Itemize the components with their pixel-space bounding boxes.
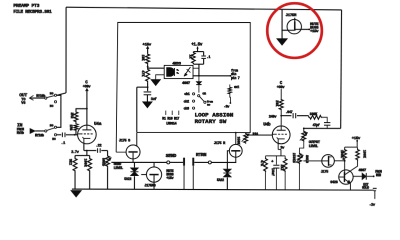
zener pair 5A22 rtrn bbox=[223, 162, 231, 189]
svg-text:J175MS: J175MS bbox=[144, 184, 156, 188]
wire box bottom stub bbox=[136, 87, 138, 132]
wire rtrn line bbox=[194, 161, 236, 163]
stub R10 bbox=[171, 111, 173, 115]
wire plate supply branch bbox=[76, 108, 88, 111]
resistor 20K plate bbox=[279, 89, 283, 126]
wire plate node bbox=[280, 115, 291, 117]
svg-text:20K: 20K bbox=[274, 100, 278, 107]
svg-text:RIN: RIN bbox=[376, 173, 381, 177]
svg-text:16uf: 16uf bbox=[271, 168, 275, 176]
wire ext to -3v bbox=[230, 94, 232, 104]
contact rotary wiper bbox=[198, 95, 200, 97]
wire network bottom bbox=[193, 64, 203, 76]
label 5A22 rtrn bbox=[217, 179, 224, 183]
svg-text:J175 S: J175 S bbox=[119, 140, 131, 144]
label 25Kb bbox=[292, 153, 296, 163]
label -3v bbox=[224, 106, 231, 110]
svg-text:4N33: 4N33 bbox=[172, 62, 181, 66]
optocoupler arrows bbox=[176, 69, 179, 74]
relay RY10b out common bbox=[45, 97, 47, 99]
arrow out to V8 bbox=[30, 95, 34, 100]
svg-text:no: no bbox=[207, 104, 211, 107]
label 1K bbox=[187, 54, 191, 59]
label C +30v right bbox=[277, 82, 286, 90]
label ROTARY SW bbox=[195, 118, 227, 125]
wire 47K to cap node bbox=[137, 82, 149, 91]
transistor J175R bbox=[227, 132, 242, 163]
wire send line bbox=[111, 161, 166, 163]
label SOLO bbox=[305, 155, 309, 163]
label 50Kb send bbox=[101, 158, 106, 166]
label 3K2 bbox=[67, 159, 71, 165]
subtitle FILE RECBPR3.S01 bbox=[13, 10, 52, 15]
label 16uf bbox=[271, 168, 275, 176]
potentiometer send level bbox=[103, 155, 111, 189]
resistor ext 401 bbox=[228, 84, 239, 94]
label TO V8 bbox=[21, 98, 26, 106]
wire NC to coupling cap bbox=[57, 134, 62, 136]
capacitor .1 input bbox=[62, 132, 65, 137]
svg-text:OUT: OUT bbox=[19, 92, 27, 98]
resistor 1M6 bbox=[74, 123, 78, 135]
wire outer loop left edge bbox=[65, 7, 67, 93]
capacitor .22 bbox=[98, 148, 101, 153]
label SEND LEVEL bbox=[114, 163, 123, 171]
wire cathode node bbox=[86, 150, 96, 152]
wire 330K to 47pf bbox=[322, 117, 327, 122]
resistor 10K bbox=[146, 53, 150, 64]
label RTRN bbox=[196, 152, 207, 158]
label 4007 solo bbox=[358, 169, 366, 173]
svg-text:1uf: 1uf bbox=[151, 97, 157, 102]
svg-text:.1: .1 bbox=[61, 142, 65, 146]
opto LED return ground bbox=[151, 75, 164, 86]
contact ch1 bbox=[193, 93, 195, 95]
wire send jack right bbox=[170, 161, 183, 163]
svg-text:240v: 240v bbox=[269, 115, 278, 119]
transistor J175MS bbox=[141, 162, 162, 189]
resistor 3K2 cathode bbox=[73, 155, 77, 189]
label MUTE BUSS +15v bbox=[310, 23, 319, 34]
wire cathode to dividers bbox=[75, 150, 90, 155]
svg-text:1M6: 1M6 bbox=[68, 124, 72, 130]
label FROM RIN bbox=[375, 170, 382, 177]
label 100R bbox=[82, 158, 86, 167]
label NC in bbox=[52, 138, 56, 141]
svg-text:NC: NC bbox=[50, 105, 54, 108]
relay RY10b in NC contact bbox=[54, 134, 56, 136]
jack SEND bbox=[167, 161, 170, 164]
svg-text:R1 R10 R17: R1 R10 R17 bbox=[162, 116, 179, 120]
optocoupler 4N33 box bbox=[164, 65, 193, 78]
wire solo wiper to J175 bbox=[303, 160, 321, 162]
tube U4a bbox=[78, 125, 97, 144]
potentiometer solo 25Kb bbox=[296, 153, 304, 190]
svg-text:J175M: J175M bbox=[286, 14, 297, 18]
svg-text:-3v: -3v bbox=[224, 106, 231, 110]
svg-text:PREAMP PT3: PREAMP PT3 bbox=[13, 3, 39, 9]
wire cap to 330K bbox=[297, 116, 309, 118]
wire out arrow to relay bbox=[30, 97, 45, 99]
label J175 solo bbox=[321, 171, 329, 175]
capacitor .1 parallel bbox=[201, 52, 206, 65]
label 100K b bbox=[363, 150, 367, 158]
label IN bbox=[17, 122, 23, 128]
label 1M6 bbox=[68, 124, 72, 130]
arrow in from RV2b bbox=[30, 128, 35, 133]
relay RY10b in wiper bbox=[47, 128, 55, 131]
module box mute control bbox=[116, 22, 250, 152]
resistor 330K bbox=[309, 115, 323, 119]
wire out NO to in NO bbox=[57, 95, 61, 127]
label RY10b bottom bbox=[35, 133, 44, 138]
label 350K bbox=[236, 137, 240, 145]
label 47K bbox=[140, 70, 144, 77]
label 10K bbox=[140, 55, 144, 62]
wire 6426 collector bbox=[350, 161, 357, 171]
label 3v bbox=[280, 146, 285, 150]
wire drop to J175M bbox=[282, 9, 287, 30]
potentiometer R16 350K bbox=[242, 133, 250, 144]
label R1 R10 R17 bbox=[162, 116, 179, 120]
label LOOP ASSIGN bbox=[195, 112, 234, 119]
capacitor 16uf bbox=[271, 156, 279, 190]
label 6426 bbox=[330, 181, 338, 185]
label NO bbox=[50, 92, 54, 95]
svg-text:4007: 4007 bbox=[182, 82, 191, 86]
label EXT SOLO bbox=[362, 182, 369, 189]
wire outer loop top edge bbox=[66, 7, 342, 10]
label 330K bbox=[310, 113, 319, 117]
svg-text:100K: 100K bbox=[340, 150, 344, 158]
relay RY10b out NO contact bbox=[54, 94, 56, 96]
svg-text:250Kb: 250Kb bbox=[292, 153, 296, 163]
wire in arrow to relay bbox=[35, 130, 44, 132]
stub R1 bbox=[165, 111, 167, 115]
svg-text:+15v: +15v bbox=[166, 177, 173, 181]
relay RY10b out NC contact bbox=[54, 101, 56, 103]
svg-text:U4b: U4b bbox=[263, 122, 271, 127]
label SEND bbox=[166, 153, 177, 159]
wire outer loop right edge bbox=[340, 10, 343, 129]
wire U4a cathode down bbox=[84, 144, 87, 151]
label J175 S bbox=[119, 140, 131, 144]
label OUTPUT LEVEL bbox=[309, 141, 321, 149]
svg-text:47K: 47K bbox=[140, 70, 144, 77]
jack sleeve SEND bbox=[183, 158, 185, 190]
label LM3914 bbox=[166, 122, 176, 126]
label FROM RV2b bbox=[17, 128, 24, 136]
svg-text:LEVEL: LEVEL bbox=[114, 167, 123, 171]
wire opto collector bbox=[193, 67, 199, 69]
resistor 2K2 U4b bbox=[283, 156, 287, 190]
transistor J175S bbox=[126, 133, 140, 162]
svg-text:4007: 4007 bbox=[358, 169, 366, 173]
label 4N33 bbox=[172, 62, 181, 66]
svg-text:100K: 100K bbox=[363, 150, 367, 158]
svg-text:RTRN: RTRN bbox=[196, 152, 207, 158]
svg-text:47K: 47K bbox=[260, 160, 264, 166]
svg-text:NC: NC bbox=[52, 138, 56, 141]
svg-text:IN: IN bbox=[17, 122, 23, 128]
svg-text:330K: 330K bbox=[310, 113, 319, 117]
svg-text:on: on bbox=[202, 91, 206, 95]
label NO in bbox=[50, 124, 54, 127]
label 1uf bbox=[151, 97, 157, 102]
svg-text:LM3914: LM3914 bbox=[166, 122, 176, 126]
label 2K2 U4b bbox=[280, 164, 284, 170]
svg-text:47pf: 47pf bbox=[313, 123, 320, 128]
zener pair 5A22 send bbox=[130, 162, 138, 189]
transistor J175 solo bbox=[322, 155, 335, 168]
transistor 6426 bbox=[339, 170, 353, 184]
resistor 47K bbox=[146, 68, 150, 82]
svg-text:RY10b: RY10b bbox=[36, 94, 45, 99]
label 47pf bbox=[313, 123, 320, 128]
label -2v bbox=[369, 203, 376, 207]
label 100K a bbox=[340, 150, 344, 158]
svg-text:J175 R: J175 R bbox=[214, 142, 226, 146]
label J175 R bbox=[214, 142, 226, 146]
wire +15v right node bbox=[345, 140, 358, 147]
label C +30v left bbox=[83, 81, 92, 89]
svg-text:10K: 10K bbox=[140, 55, 144, 62]
label .1 parallel bbox=[206, 56, 210, 60]
label ch1 bbox=[184, 92, 189, 97]
wire cap to grid node bbox=[66, 134, 77, 136]
capacitor 47pf bbox=[324, 123, 330, 129]
svg-text:RV2b: RV2b bbox=[17, 131, 24, 136]
wire gate J175S bbox=[116, 151, 126, 153]
resistor 1K coil bbox=[192, 52, 196, 65]
svg-text:pin 7: pin 7 bbox=[231, 76, 240, 80]
label J175MS bbox=[144, 184, 156, 188]
svg-text:5A22: 5A22 bbox=[124, 178, 131, 182]
svg-text:NO: NO bbox=[50, 124, 54, 127]
jack RTRN bbox=[208, 161, 211, 164]
wire R16 to U4b grid bbox=[249, 134, 273, 136]
optocoupler LED bbox=[167, 68, 175, 77]
wire outer loop left edge jog to OUT relay NO bbox=[57, 93, 66, 95]
contact ch3 bbox=[192, 107, 194, 109]
svg-text:FILE RECBPR3.S01: FILE RECBPR3.S01 bbox=[13, 10, 52, 15]
ground below J175M bbox=[277, 30, 288, 45]
label 20K bbox=[274, 100, 278, 107]
wire control bus bbox=[193, 75, 232, 77]
stub R17 bbox=[178, 111, 180, 115]
label +15v right bbox=[352, 137, 361, 141]
svg-text:-2v: -2v bbox=[369, 203, 376, 207]
annotation red circle bbox=[267, 3, 322, 58]
label ch3 bbox=[184, 106, 189, 111]
resistor 100R cathode bbox=[88, 156, 92, 190]
wire 6426 emitter bbox=[349, 183, 351, 190]
svg-text:ROTARY SW: ROTARY SW bbox=[195, 118, 227, 125]
label .1 input cap bbox=[61, 142, 65, 146]
contact rotary off bbox=[204, 101, 206, 103]
label OUT bbox=[19, 92, 27, 98]
diode 4007 solo bbox=[353, 173, 375, 180]
wire +15v drop bbox=[146, 46, 149, 53]
resistor 100K a bbox=[343, 147, 347, 161]
svg-text:.047: .047 bbox=[285, 111, 292, 115]
svg-text:.22: .22 bbox=[96, 145, 102, 149]
resistor 47K U4b bbox=[264, 156, 268, 190]
label U4a bbox=[94, 122, 102, 127]
wire +1.5v drop bbox=[193, 47, 203, 52]
svg-text:2K2: 2K2 bbox=[280, 164, 284, 170]
svg-text:ext: ext bbox=[234, 85, 239, 89]
title PREAMP PT3 bbox=[13, 3, 39, 9]
label .22 bbox=[96, 145, 102, 149]
wire output level node to right edge bbox=[304, 127, 341, 129]
svg-text:SOLO: SOLO bbox=[362, 186, 369, 190]
resistor 2M2 bbox=[74, 111, 78, 122]
contact ch2 bbox=[193, 100, 195, 102]
wire plate supply bbox=[85, 88, 88, 125]
svg-text:RY10b: RY10b bbox=[35, 133, 44, 138]
wire cathode tie bbox=[266, 155, 286, 157]
wire ground bus bbox=[72, 189, 374, 190]
svg-text:SEND: SEND bbox=[166, 153, 177, 159]
svg-text:2.7v: 2.7v bbox=[71, 151, 80, 155]
svg-text:ch3: ch3 bbox=[184, 106, 189, 111]
wire cap to send pot bbox=[101, 151, 107, 155]
label 4007 control bbox=[182, 82, 191, 86]
label 2M2 bbox=[69, 112, 73, 118]
label +15v bbox=[142, 44, 151, 48]
wire U4b cathode bbox=[278, 143, 281, 155]
resistor 100K b bbox=[356, 147, 360, 161]
capacitor 1uf bbox=[144, 92, 152, 95]
svg-text:V8: V8 bbox=[21, 102, 25, 106]
capacitor .047 bbox=[293, 113, 296, 118]
svg-text:U4a: U4a bbox=[94, 122, 102, 127]
label U4b bbox=[263, 122, 271, 127]
svg-text:ch2: ch2 bbox=[184, 99, 189, 104]
label 5A22 send bbox=[124, 178, 131, 182]
label 2.7v bbox=[71, 151, 80, 155]
svg-text:5A22: 5A22 bbox=[217, 179, 224, 183]
ground main bbox=[71, 190, 82, 197]
diode 4007 control bbox=[196, 76, 201, 93]
ground 1uf bbox=[143, 95, 153, 108]
svg-text:3K2: 3K2 bbox=[67, 159, 71, 165]
tube U4b bbox=[272, 126, 290, 144]
label 47K U4b bbox=[260, 160, 264, 166]
jack sleeve RTRN bbox=[192, 158, 194, 190]
label on bbox=[202, 91, 206, 95]
svg-text:350K: 350K bbox=[236, 137, 240, 145]
wire rotary wiper arm bbox=[200, 96, 205, 101]
svg-text:LEVEL: LEVEL bbox=[309, 145, 318, 149]
label MUTE BUSS +15v send bbox=[166, 170, 173, 181]
svg-text:+15v: +15v bbox=[310, 30, 319, 34]
relay RY10b out wiper bbox=[47, 96, 55, 98]
label from no bbox=[207, 99, 214, 106]
relay RY10b in NO contact bbox=[54, 126, 56, 128]
label 240v bbox=[269, 115, 278, 119]
svg-text:SOLO: SOLO bbox=[305, 155, 309, 163]
relay RY10b in common bbox=[45, 130, 47, 132]
label R16 bbox=[253, 133, 258, 137]
svg-text:2M2: 2M2 bbox=[69, 112, 73, 118]
wire to solo pot bbox=[300, 142, 304, 153]
svg-text:+: + bbox=[271, 161, 274, 165]
svg-text:50Kb: 50Kb bbox=[101, 158, 106, 166]
wire J175M source to mute buss bbox=[301, 28, 310, 30]
label from din pin 7 bbox=[231, 69, 240, 80]
label .047 bbox=[285, 111, 292, 115]
label NC bbox=[50, 105, 54, 108]
optocoupler phototransistor bbox=[184, 67, 190, 76]
svg-text:NO: NO bbox=[50, 92, 54, 95]
svg-text:6426: 6426 bbox=[330, 181, 338, 185]
jack EXT SOLO bbox=[373, 188, 377, 199]
svg-text:ch1: ch1 bbox=[184, 92, 189, 97]
label ch2 bbox=[184, 99, 189, 104]
label J175M bbox=[286, 14, 297, 18]
wire J175 to base bbox=[334, 160, 345, 177]
label RY10b top bbox=[36, 94, 45, 99]
svg-text:J175: J175 bbox=[321, 171, 329, 175]
transistor J175M bbox=[287, 18, 302, 34]
svg-text:.1: .1 bbox=[206, 56, 210, 60]
potentiometer output level bbox=[300, 127, 308, 141]
svg-text:100R: 100R bbox=[82, 158, 86, 167]
wire 10K to opto bbox=[147, 64, 165, 68]
label +1.5v bbox=[191, 44, 203, 48]
